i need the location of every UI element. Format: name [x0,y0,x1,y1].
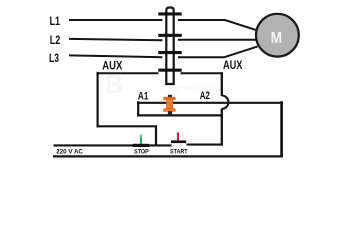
coil K1 (orange bobbin) [164,95,176,115]
wire latch horizontal [97,125,158,127]
coil box bottom line [137,114,223,116]
wire L3 left [69,55,162,57]
coil box left edge [137,101,139,116]
contactor aux contact bridge [158,69,181,72]
wire aux left [97,72,159,74]
wire top rail (live) [54,144,172,146]
coil box top line / wire to A2 return [137,102,282,104]
svg-text:220 V AC: 220 V AC [56,149,83,156]
pushbutton STOP (NC) [133,135,149,147]
contactor K1 armature body [166,8,173,85]
svg-text:A2: A2 [200,90,210,102]
wire A2 return right vertical [280,101,283,157]
contactor main contact bridge L1 [158,12,181,15]
svg-text:AUX: AUX [223,58,243,72]
wire L1 right to motor [178,20,258,31]
svg-text:L3: L3 [49,52,59,65]
svg-text:A1: A1 [138,90,149,102]
wire aux down vertical lower to rail [221,109,223,146]
svg-text:M: M [271,30,282,47]
wire START output to aux junction [187,144,223,146]
wire L3 right to motor [178,47,258,58]
contactor main contact bridge L3 [158,51,181,54]
wire aux right [181,72,223,74]
watermark logo [105,69,215,99]
wire L1 left [69,19,162,21]
svg-text:L2: L2 [50,34,61,47]
wire latch left vertical [96,72,98,128]
wire L2 right to motor [178,39,258,41]
svg-text:L1: L1 [50,15,61,28]
wire hop over A2 wire [222,96,229,109]
motor M1 [256,14,299,57]
pushbutton START (NO) [171,132,186,143]
svg-text:START: START [170,149,188,156]
wire latch right vertical to rail [155,126,157,146]
wire L2 left [69,39,162,40]
wire bottom rail (neutral) [53,155,283,157]
wire aux down vertical upper [221,72,223,96]
contactor main contact bridge L2 [158,34,181,37]
svg-text:STOP: STOP [134,149,149,156]
svg-text:AUX: AUX [102,58,123,72]
